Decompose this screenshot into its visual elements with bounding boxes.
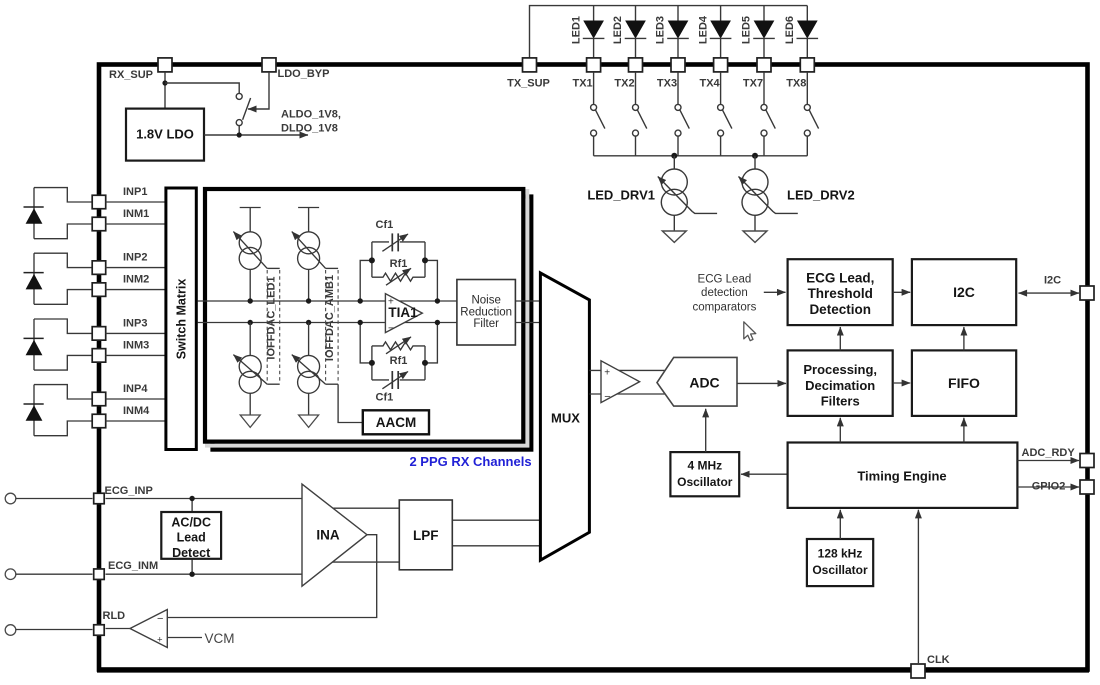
svg-text:Lead: Lead xyxy=(177,531,206,545)
svg-text:+: + xyxy=(604,367,610,378)
wire: LDO output ALDO/DLDO xyxy=(204,134,308,136)
svg-text:TX7: TX7 xyxy=(743,78,763,90)
svg-text:Rf1: Rf1 xyxy=(390,355,408,367)
diode LED1 xyxy=(584,21,603,38)
pin GPIO2 xyxy=(1080,480,1094,494)
pin TX1 xyxy=(587,58,601,72)
svg-text:I2C: I2C xyxy=(1044,275,1061,287)
svg-text:LED2: LED2 xyxy=(612,16,624,44)
wire: LED5 anode from rail xyxy=(763,6,765,21)
photodiode D1 xyxy=(34,188,93,202)
svg-text:Filter: Filter xyxy=(473,318,499,330)
svg-text:−: − xyxy=(157,613,163,625)
wire: MUX to buffer to ADC (bottom) xyxy=(589,393,664,395)
pin TX3 xyxy=(671,58,685,72)
switch SW_TX2 xyxy=(635,73,637,105)
block Processing, Decimation Filters xyxy=(788,350,893,416)
op-amp INA xyxy=(302,484,367,586)
switch: LDO bypass xyxy=(236,93,242,99)
wire: Processing to ECG Lead xyxy=(839,327,841,350)
svg-text:Processing,: Processing, xyxy=(803,362,877,377)
pin ECG_INM xyxy=(94,569,105,580)
svg-text:INP1: INP1 xyxy=(123,186,147,198)
pin INP2 xyxy=(92,261,106,275)
svg-text:IOFFDAC_AMB1: IOFFDAC_AMB1 xyxy=(324,275,336,361)
wire: osc to ADC xyxy=(705,409,707,452)
capacitor Cf1 (top) xyxy=(372,241,389,243)
op-amp RLD xyxy=(130,610,167,648)
svg-text:INM2: INM2 xyxy=(123,274,149,286)
switch SW_TX7 xyxy=(763,73,765,105)
wire: comparators arrow xyxy=(764,291,786,293)
svg-text:comparators: comparators xyxy=(692,302,756,314)
capacitor Cf1 (bottom) xyxy=(372,379,389,381)
pin TX7 xyxy=(757,58,771,72)
block Noise Reduction Filter xyxy=(457,280,516,346)
svg-text:INP3: INP3 xyxy=(123,317,147,329)
svg-text:LED4: LED4 xyxy=(697,15,709,44)
svg-text:TX_SUP: TX_SUP xyxy=(507,78,550,90)
ground under IOFFDAC_AMB1 xyxy=(308,393,310,415)
svg-text:TX4: TX4 xyxy=(700,78,721,90)
wire: Timing to FIFO xyxy=(963,418,965,443)
svg-text:AACM: AACM xyxy=(376,415,417,430)
svg-text:Cf1: Cf1 xyxy=(376,219,394,231)
svg-text:LED3: LED3 xyxy=(655,16,667,44)
svg-text:LDO_BYP: LDO_BYP xyxy=(278,68,330,80)
ground under IOFFDAC_LED1 xyxy=(249,393,251,415)
svg-text:ADC: ADC xyxy=(689,375,719,391)
wire VCM xyxy=(167,637,202,639)
switch SW_TX3 xyxy=(677,73,679,105)
block I2C xyxy=(912,259,1016,325)
svg-text:Detection: Detection xyxy=(809,302,871,317)
wire INM4 to switch matrix xyxy=(106,420,167,422)
svg-text:Noise: Noise xyxy=(471,295,500,307)
wire: AMB DAC to AACM xyxy=(338,384,363,422)
wire: Timing to Processing xyxy=(839,418,841,443)
pin ADC_RDY xyxy=(1080,454,1094,468)
svg-text:TX2: TX2 xyxy=(614,78,634,90)
wire GPIO2 xyxy=(1017,486,1079,488)
wire: Processing to FIFO xyxy=(893,382,911,384)
dashed DAC range box IOFFDAC_AMB1 xyxy=(325,270,327,383)
wire INM1 to switch matrix xyxy=(106,223,167,225)
ground under LED_DRV2 xyxy=(754,215,756,231)
photodiode D2 xyxy=(34,253,93,267)
wire: branch to bypass switch xyxy=(165,83,239,94)
pin INP1 xyxy=(92,195,106,209)
svg-text:VCM: VCM xyxy=(205,631,235,646)
wire: LED4 anode from rail xyxy=(720,6,722,21)
wire RLD pin to amp xyxy=(106,628,131,630)
photodiode D3 xyxy=(34,319,93,333)
wire: LED3 anode from rail xyxy=(677,6,679,21)
current source LED_DRV1 xyxy=(673,156,675,169)
wire: LED6 anode from rail xyxy=(806,6,808,21)
svg-text:I2C: I2C xyxy=(953,284,975,300)
block: PPG RX channel 1 (front box) xyxy=(205,189,523,442)
wire: FIFO to I2C xyxy=(963,327,965,350)
pin CLK xyxy=(911,664,925,678)
pin ECG_INP xyxy=(94,493,105,504)
pin RLD xyxy=(94,625,105,636)
wire INM2 to switch matrix xyxy=(106,289,167,291)
svg-text:ECG_INM: ECG_INM xyxy=(108,560,158,572)
svg-text:LED_DRV1: LED_DRV1 xyxy=(587,188,655,203)
block: PPG RX channel 2 (back box) xyxy=(213,197,532,450)
block MUX xyxy=(540,273,589,560)
svg-text:RLD: RLD xyxy=(103,610,126,622)
current source IOFFDAC_LED1 bottom pair xyxy=(248,320,253,325)
diode LED2 xyxy=(626,21,645,38)
pin INM1 xyxy=(92,217,106,231)
svg-text:AC/DC: AC/DC xyxy=(171,515,211,529)
svg-text:INP2: INP2 xyxy=(123,252,147,264)
svg-text:Switch Matrix: Switch Matrix xyxy=(174,279,188,360)
block LPF xyxy=(399,500,452,570)
terminal circle ECG_INM xyxy=(5,569,16,580)
svg-text:INM1: INM1 xyxy=(123,208,149,220)
diode LED4 xyxy=(711,21,730,38)
svg-text:TIA1: TIA1 xyxy=(388,305,418,320)
block FIFO xyxy=(912,350,1016,416)
diode LED5 xyxy=(755,21,774,38)
pin TX4 xyxy=(714,58,728,72)
pin INP3 xyxy=(92,327,106,341)
svg-text:Cf1: Cf1 xyxy=(376,391,394,403)
pin RX_SUP xyxy=(158,58,172,72)
svg-text:LED6: LED6 xyxy=(784,16,796,44)
svg-text:ALDO_1V8,: ALDO_1V8, xyxy=(281,109,341,121)
wire: ECG Lead to I2C xyxy=(893,291,911,293)
resistor Rf1 (top) xyxy=(372,273,425,281)
wire: LDO_BYP pin to switch blade (arrow) xyxy=(248,73,269,109)
block 128 kHz Oscillator xyxy=(807,539,873,586)
wire: TX drive bus xyxy=(594,155,808,157)
svg-text:Timing Engine: Timing Engine xyxy=(857,469,946,484)
wire: feedback loop bottom xyxy=(360,323,372,363)
current source IOFFDAC_LED1 top pair xyxy=(240,207,261,209)
svg-text:TX1: TX1 xyxy=(573,78,593,90)
node: bus junction dots xyxy=(671,153,677,159)
wire: MUX to buffer to ADC (top) xyxy=(589,369,664,371)
op-amp TIA1 xyxy=(385,294,422,333)
wire ADC_RDY xyxy=(1017,460,1079,462)
svg-text:Oscillator: Oscillator xyxy=(677,475,733,489)
wire: LED2 anode from rail xyxy=(635,6,637,21)
block 4 MHz Oscillator xyxy=(670,452,739,496)
svg-text:CLK: CLK xyxy=(927,654,950,666)
terminal circle RLD xyxy=(5,625,16,636)
diode LED3 xyxy=(669,21,688,38)
svg-text:LED_DRV2: LED_DRV2 xyxy=(787,188,855,203)
wire: LED supply top rail xyxy=(530,6,808,60)
svg-text:INA: INA xyxy=(316,528,340,543)
svg-text:TX8: TX8 xyxy=(786,78,806,90)
svg-text:Rf1: Rf1 xyxy=(390,258,408,270)
block U_LDO 1.8V LDO xyxy=(126,109,204,161)
svg-text:Filters: Filters xyxy=(821,394,860,409)
svg-text:RX_SUP: RX_SUP xyxy=(109,69,153,81)
block ADC (pentagon) xyxy=(657,357,737,406)
wire INM3 to switch matrix xyxy=(106,354,167,356)
svg-text:Detect: Detect xyxy=(172,546,211,560)
wire: LPF outputs to MUX xyxy=(452,519,542,521)
wire INP4 to switch matrix xyxy=(106,398,167,400)
svg-text:LED1: LED1 xyxy=(570,16,582,44)
wire: ADC to Processing xyxy=(737,382,786,384)
block AACM xyxy=(363,410,429,434)
block AC/DC Lead Detect xyxy=(161,512,221,559)
wire INP1 to switch matrix xyxy=(106,201,167,203)
pin I2C xyxy=(1080,286,1094,300)
svg-text:INM3: INM3 xyxy=(123,339,149,351)
svg-text:ECG Lead,: ECG Lead, xyxy=(806,271,874,286)
photodiode D4 xyxy=(34,385,93,399)
pin TX_SUP xyxy=(523,58,537,72)
wire: RX signal line 1 (top) xyxy=(198,300,543,302)
wire: LED1 anode from rail xyxy=(593,6,595,21)
svg-text:IOFFDAC_LED1: IOFFDAC_LED1 xyxy=(265,276,277,359)
terminal circle ECG_INP xyxy=(5,493,16,504)
wire: lead detect tap xyxy=(191,499,193,575)
wire ECG_INP xyxy=(106,498,303,500)
switch SW_TX1 xyxy=(593,73,595,105)
svg-text:TX3: TX3 xyxy=(657,78,677,90)
svg-text:Decimation: Decimation xyxy=(805,378,875,393)
svg-text:+: + xyxy=(157,635,163,646)
block Switch Matrix xyxy=(166,188,196,450)
pin INM4 xyxy=(92,414,106,428)
wire: CLK to Timing xyxy=(917,510,919,663)
svg-text:GPIO2: GPIO2 xyxy=(1032,480,1066,492)
current source LED_DRV2 xyxy=(754,156,756,169)
diode LED6 xyxy=(798,21,817,38)
current source IOFFDAC_AMB1 bottom pair xyxy=(306,320,311,325)
svg-text:Reduction: Reduction xyxy=(460,306,512,318)
wire ECG_INM xyxy=(106,573,303,575)
svg-text:4 MHz: 4 MHz xyxy=(687,458,722,472)
block ECG Lead, Threshold Detection xyxy=(788,259,893,325)
pin INM3 xyxy=(92,349,106,363)
wire: feedback loop top xyxy=(360,260,372,301)
wire INP2 to switch matrix xyxy=(106,267,167,269)
svg-text:LED5: LED5 xyxy=(741,16,753,44)
dashed DAC range box IOFFDAC_LED1 xyxy=(266,270,268,383)
resistor Rf1 (bottom) xyxy=(372,342,425,350)
wire: RX signal line 2 (bottom) xyxy=(198,322,543,324)
mouse cursor xyxy=(744,322,756,341)
pin LDO_BYP xyxy=(262,58,276,72)
svg-text:Oscillator: Oscillator xyxy=(812,563,868,577)
pin INP4 xyxy=(92,392,106,406)
svg-text:detection: detection xyxy=(701,287,748,299)
switch SW_TX4 xyxy=(720,73,722,105)
svg-text:−: − xyxy=(604,391,610,403)
pin TX2 xyxy=(629,58,643,72)
svg-text:Threshold: Threshold xyxy=(808,286,873,301)
op-amp buffer xyxy=(601,361,640,403)
svg-text:2 PPG RX Channels: 2 PPG RX Channels xyxy=(409,454,531,469)
wire: RX_SUP to LDO xyxy=(164,73,166,109)
svg-text:ADC_RDY: ADC_RDY xyxy=(1022,447,1076,459)
wire: timing engine to 4MHz osc xyxy=(741,473,788,475)
svg-text:1.8V LDO: 1.8V LDO xyxy=(136,127,194,142)
wire: INA feedback to RLD xyxy=(167,535,376,618)
svg-text:DLDO_1V8: DLDO_1V8 xyxy=(281,123,338,135)
svg-text:ECG Lead: ECG Lead xyxy=(698,274,752,286)
svg-text:−: − xyxy=(388,323,394,335)
svg-text:MUX: MUX xyxy=(551,410,580,425)
wire: I2C bus bidirectional xyxy=(1019,292,1080,294)
svg-text:INM4: INM4 xyxy=(123,405,150,417)
svg-text:LPF: LPF xyxy=(413,528,439,543)
svg-text:128 kHz: 128 kHz xyxy=(818,547,863,561)
wire: INA outputs to LPF xyxy=(322,507,399,509)
ground under LED_DRV1 xyxy=(673,215,675,231)
switch SW_TX8 xyxy=(806,73,808,105)
block Timing Engine xyxy=(788,443,1018,508)
svg-text:ECG_INP: ECG_INP xyxy=(105,485,153,497)
wire: 128kHz osc to Timing xyxy=(839,510,841,539)
pin TX8 xyxy=(800,58,814,72)
pin INM2 xyxy=(92,283,106,297)
current source IOFFDAC_AMB1 top pair xyxy=(298,207,319,209)
wire INP3 to switch matrix xyxy=(106,332,167,334)
chip boundary (AFE device outline) xyxy=(99,65,1088,670)
svg-text:INP4: INP4 xyxy=(123,383,148,395)
svg-text:FIFO: FIFO xyxy=(948,375,980,391)
